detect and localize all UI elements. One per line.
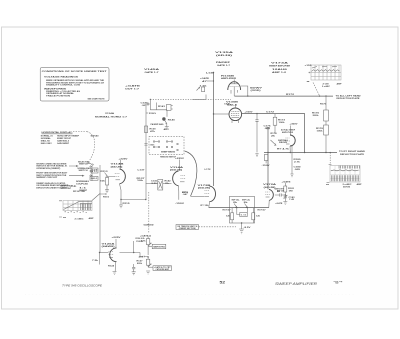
wire C140 riser <box>150 99 167 110</box>
wire ganged dashed <box>148 192 150 233</box>
label C176 <box>264 125 271 129</box>
label V125A tube <box>102 242 116 248</box>
tube V114A <box>173 171 186 192</box>
capacitor C140 <box>141 101 151 106</box>
wire plate left <box>214 113 230 115</box>
svg-text:V172A: V172A <box>263 183 277 186</box>
label PA/DEF gate <box>216 61 231 67</box>
horizontal display table <box>41 131 80 145</box>
label 6DW7 <box>250 87 264 92</box>
svg-text:R113: R113 <box>101 171 108 173</box>
svg-text:R179 47: R179 47 <box>258 208 266 211</box>
ground <box>283 202 287 205</box>
label sweep 1:1 <box>79 188 88 192</box>
svg-text:V125A: V125A <box>102 242 116 245</box>
resistor R176 <box>316 121 328 153</box>
waveform chart upper right <box>305 65 343 88</box>
svg-text:PA/DEF: PA/DEF <box>216 61 231 64</box>
svg-text:R? 15k: R? 15k <box>201 205 210 207</box>
wire gate stub <box>207 80 214 82</box>
wire plate of V172A <box>275 193 286 196</box>
wire main line to left deflection plate <box>235 95 334 97</box>
wire right deflection line <box>264 152 337 154</box>
svg-text:-8.5V: -8.5V <box>244 227 252 229</box>
svg-text:R140: R140 <box>168 118 175 121</box>
wire box bottom <box>232 220 253 223</box>
resistor R138 <box>146 112 157 115</box>
label coupled note <box>76 180 90 185</box>
svg-text:-150V: -150V <box>175 203 185 205</box>
svg-text:NORMAL HORIZ 1:7: NORMAL HORIZ 1:7 <box>95 116 128 119</box>
wire dashed curve from table to switch <box>73 131 87 133</box>
svg-text:DEFLECTION PLATE: DEFLECTION PLATE <box>340 153 365 156</box>
svg-text:SAWTOOTH A: SAWTOOTH A <box>153 245 165 248</box>
svg-text:V114B: V114B <box>111 163 125 166</box>
sweep cal network box <box>230 196 255 223</box>
svg-text:L137: L137 <box>138 170 145 172</box>
wire gate feed <box>192 95 206 100</box>
label normal/mag switch <box>78 167 92 172</box>
wire dashed gate line <box>150 98 231 100</box>
wire dashed from chart to junction <box>313 83 320 96</box>
tube V172B left <box>205 186 216 207</box>
capacitor C171 <box>255 114 258 153</box>
tube V125A <box>109 248 117 272</box>
svg-text:AMP: AMP <box>337 83 343 86</box>
boxed label +gate A <box>148 266 171 271</box>
svg-text:CATHODE AMP: CATHODE AMP <box>156 268 170 271</box>
time/cm switch dashed box <box>149 137 184 155</box>
label actual sweep amplitude <box>281 128 296 133</box>
wire cathode bus <box>121 199 146 201</box>
svg-text:+155: +155 <box>305 65 312 67</box>
svg-text:V145A: V145A <box>144 68 160 71</box>
svg-text:R175: R175 <box>320 104 326 106</box>
trimmer network C141 <box>146 180 172 191</box>
svg-text:R170 47: R170 47 <box>223 208 231 211</box>
note paragraph 1 <box>36 162 67 169</box>
svg-text:OPERATION (SWEEP): OPERATION (SWEEP) <box>36 167 60 170</box>
svg-text:1M: 1M <box>289 190 294 192</box>
svg-text:R172: R172 <box>286 94 294 96</box>
switch section box 2 <box>90 176 98 180</box>
svg-text:L172: L172 <box>205 169 211 171</box>
conditions note box <box>40 68 109 102</box>
wire main vertical bus <box>213 72 215 186</box>
svg-text:ADJ: ADJ <box>164 128 169 131</box>
wire cathode link <box>209 207 269 209</box>
resistor R129 <box>146 257 151 268</box>
tube V114B <box>115 169 126 200</box>
ground <box>105 190 109 193</box>
capacitor C136 <box>200 77 210 83</box>
label V172 left tube <box>198 185 212 190</box>
label V114A tube <box>170 166 184 172</box>
svg-text:V173A: V173A <box>271 61 289 64</box>
svg-text:R115: R115 <box>123 203 130 205</box>
wire chart drop <box>329 153 331 164</box>
svg-text:+225V: +225V <box>175 158 185 160</box>
svg-text:DEFLECTION PLATE: DEFLECTION PLATE <box>337 97 361 100</box>
svg-text:AMPLITUDE: AMPLITUDE <box>282 131 294 134</box>
svg-text:R176: R176 <box>316 128 323 130</box>
svg-text:C172: C172 <box>266 111 274 113</box>
svg-text:7-45: 7-45 <box>289 198 294 201</box>
resistor R171 <box>226 208 234 220</box>
label to right hand deflection plate <box>339 150 366 156</box>
faint fold line <box>25 294 355 296</box>
label to all left hand deflection plate <box>336 95 362 101</box>
wire plate bus <box>120 252 141 254</box>
waveform chart lower left <box>59 201 94 221</box>
label +gate out <box>125 85 141 91</box>
svg-text:GAIN SWEEP: GAIN SWEEP <box>57 142 70 145</box>
resistor R139 <box>145 126 157 133</box>
resistor R180 chain <box>290 146 301 177</box>
resistor R173 <box>273 114 286 133</box>
svg-text:+GATE: +GATE <box>125 85 141 88</box>
wire chart pointer <box>92 194 100 201</box>
svg-text:VOLTAGE READINGS: VOLTAGE READINGS <box>44 76 79 79</box>
wire grid column <box>145 104 147 200</box>
capacitor C127 <box>132 264 135 272</box>
wire arrow 2 <box>69 175 84 176</box>
svg-text:(SWEEP SECTION): (SWEEP SECTION) <box>179 228 196 230</box>
wire plate right <box>242 114 305 153</box>
svg-text:R? 4.7k: R? 4.7k <box>277 147 291 150</box>
wire sweep amp column <box>267 128 269 190</box>
wire big arc to V172B grid <box>185 151 197 196</box>
svg-text:+225V: +225V <box>119 158 129 160</box>
svg-text:TO R? RIGHT HAND: TO R? RIGHT HAND <box>339 150 366 153</box>
ground <box>113 272 117 275</box>
svg-text:-150V: -150V <box>262 165 271 167</box>
svg-text:"B"*: "B"* <box>334 280 344 284</box>
label V135A <box>215 51 234 57</box>
ground <box>119 205 123 208</box>
svg-text:SWEEP TIME/CM: SWEEP TIME/CM <box>161 152 175 154</box>
label selector switch <box>78 161 90 165</box>
boxed label sawtooth A <box>148 244 166 248</box>
svg-text:+GATE A: +GATE A <box>140 234 152 237</box>
potentiometer R174 <box>271 132 278 145</box>
tube V135B <box>229 105 242 124</box>
resistor R136 <box>197 85 209 91</box>
switch section box 1 <box>91 168 98 173</box>
svg-text:TEST POINT: TEST POINT <box>60 188 72 190</box>
label V173A sweep amplifier <box>269 61 290 74</box>
svg-text:SW140: SW140 <box>91 135 99 138</box>
svg-text:R141: R141 <box>158 105 165 108</box>
svg-text:+GATE: +GATE <box>200 77 210 80</box>
label V172A right tube <box>263 183 277 189</box>
svg-text:R135B: R135B <box>221 75 235 77</box>
ground cap C171 <box>255 154 258 157</box>
svg-text:SWEEP AMPLIFIER: SWEEP AMPLIFIER <box>275 281 317 286</box>
svg-text:GATE 1:7: GATE 1:7 <box>145 71 160 74</box>
resistor R112 <box>100 178 109 190</box>
waveform chart right <box>326 166 362 189</box>
svg-text:R175: R175 <box>312 112 319 114</box>
label 6DW8 amplifier <box>221 75 237 80</box>
resistor 7.5k tail <box>99 253 101 265</box>
svg-text:(6DJ8): (6DJ8) <box>216 55 233 57</box>
svg-text:(6DJ8): (6DJ8) <box>111 167 124 169</box>
svg-text:.005: .005 <box>294 169 300 171</box>
label L137 <box>137 170 145 183</box>
svg-text:52: 52 <box>220 281 226 285</box>
svg-text:GANGED: GANGED <box>144 224 155 227</box>
boxed label on time/cm switch <box>176 225 199 230</box>
svg-text:8-50: 8-50 <box>152 183 157 185</box>
svg-text:TYPE 545 OSCILLOSCOPE: TYPE 545 OSCILLOSCOPE <box>62 284 103 288</box>
note paragraph 2 <box>36 172 68 179</box>
trimmer capacitor C183 <box>284 195 295 201</box>
svg-text:V135A: V135A <box>215 51 234 54</box>
svg-text:2 mSEC: 2 mSEC <box>75 219 85 221</box>
svg-text:SWEEP AMPLIFIER: SWEEP AMPLIFIER <box>269 65 290 68</box>
label V145A gate amp <box>144 68 160 74</box>
svg-text:AMP: AMP <box>89 217 95 220</box>
wire grid entry <box>191 195 205 197</box>
svg-text:PA/SWP MAG: PA/SWP MAG <box>151 123 165 126</box>
wire supply drop <box>115 239 117 248</box>
svg-text:TRACE POSITION: TRACE POSITION <box>46 94 71 97</box>
svg-text:+GATE: +GATE <box>282 180 292 183</box>
wire arrow 3 <box>70 185 76 186</box>
svg-text:SWEEP CIRCUIT: SWEEP CIRCUIT <box>36 177 58 179</box>
svg-text:50V/CM: 50V/CM <box>343 187 350 189</box>
svg-text:ADJ: ADJ <box>92 170 97 173</box>
wire to ground <box>241 223 243 229</box>
tube V173 cathode follower <box>286 126 296 153</box>
svg-text:(6DJ8): (6DJ8) <box>198 188 211 190</box>
capacitor C138 <box>144 144 154 147</box>
ground <box>239 229 244 234</box>
svg-text:STABILITY CONTROL CCW: STABILITY CONTROL CCW <box>46 84 80 87</box>
resistor R141 <box>158 105 173 111</box>
tube V172A right <box>265 189 273 207</box>
ground <box>132 272 136 275</box>
wire plate supply <box>120 160 122 169</box>
resistor R186 below line <box>262 155 271 168</box>
ground <box>165 127 169 130</box>
node L136 <box>206 72 215 75</box>
svg-text:.047: .047 <box>183 193 188 196</box>
svg-text:COUPLED: COUPLED <box>76 183 89 185</box>
label V135B <box>226 102 239 107</box>
gate A output column <box>140 234 152 246</box>
svg-text:V172B: V172B <box>198 185 212 187</box>
svg-text:(6AW8): (6AW8) <box>102 245 115 248</box>
label swp mag regis <box>278 139 289 144</box>
wire grid feed <box>100 252 109 254</box>
tube V135A section (dome) <box>228 80 249 97</box>
svg-text:TO ALL LEFT HAND: TO ALL LEFT HAND <box>336 95 362 98</box>
capacitor C128 <box>138 246 149 258</box>
svg-text:SWITCH: SWITCH <box>79 170 89 172</box>
svg-text:R110: R110 <box>103 197 109 199</box>
svg-text:5.6k: 5.6k <box>241 215 247 217</box>
resistor chain R175 <box>312 96 328 121</box>
svg-text:6DW7: 6DW7 <box>250 87 264 89</box>
svg-text:+225V: +225V <box>112 237 122 239</box>
svg-text:SWITCH: SWITCH <box>79 164 89 166</box>
svg-text:AMP: AMP <box>357 183 363 186</box>
svg-text:.001: .001 <box>138 257 143 259</box>
svg-text:CONDITIONS OF SCOPE UNDER TEST: CONDITIONS OF SCOPE UNDER TEST <box>42 71 108 73</box>
switch wafer terminals <box>88 162 93 176</box>
wire switch feed <box>99 165 101 253</box>
resistor R177 center <box>237 208 248 217</box>
svg-text:V114A: V114A <box>105 112 115 115</box>
svg-text:+GATE: +GATE <box>275 202 283 205</box>
wire arrow 1 <box>69 165 78 166</box>
wire plate supply <box>179 160 181 171</box>
capacitor C114 <box>179 191 189 200</box>
note paragraph 3 <box>36 182 69 189</box>
svg-text:V135B: V135B <box>226 102 239 104</box>
svg-text:R138 47k: R138 47k <box>149 112 157 115</box>
label R127 820k <box>137 260 144 264</box>
ground <box>146 271 150 274</box>
svg-text:SEE CHART NOTE: SEE CHART NOTE <box>88 98 106 101</box>
svg-text:47: 47 <box>202 80 207 83</box>
svg-text:2 mSEC: 2 mSEC <box>322 86 331 88</box>
potentiometer R113 <box>101 171 115 178</box>
gate b column <box>275 180 295 196</box>
wire dashed from boxed label <box>199 226 237 228</box>
svg-text:AMP 1:2: AMP 1:2 <box>272 71 287 74</box>
svg-text:6AL5: 6AL5 <box>227 104 239 107</box>
svg-text:(ODD): (ODD) <box>251 90 261 92</box>
label front panel <box>60 184 86 193</box>
svg-text:+350V: +350V <box>290 124 299 126</box>
svg-text:R116 15k: R116 15k <box>73 191 86 193</box>
resistor R126 riser <box>134 238 146 252</box>
wire switch rotor <box>91 167 93 181</box>
label V114A normal horiz <box>95 112 128 119</box>
resistor R110 <box>100 193 109 199</box>
svg-text:+100V: +100V <box>245 111 254 113</box>
svg-text:MAG ONLY: MAG ONLY <box>41 142 53 145</box>
svg-text:12AU6: 12AU6 <box>272 68 289 71</box>
resistor R115 <box>121 200 130 206</box>
svg-text:OUT 1:7: OUT 1:7 <box>125 89 140 91</box>
svg-text:AMPLIFIER: AMPLIFIER <box>221 77 237 80</box>
resistor R178 <box>252 208 261 220</box>
svg-text:GATE 1:7: GATE 1:7 <box>217 64 231 67</box>
svg-text:V114A: V114A <box>170 166 184 169</box>
potentiometer R140 <box>151 110 175 131</box>
label V114B <box>111 163 125 169</box>
